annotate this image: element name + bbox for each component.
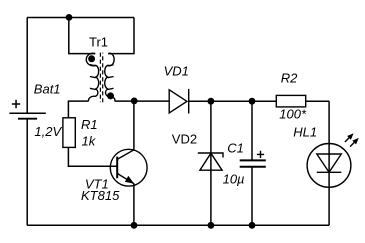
phase dot secondary [107,92,114,99]
zener diode VD2 [198,153,223,170]
emitter arrow of VT1 [125,176,134,184]
wire rail R2 to HL1 corner [306,100,329,102]
wire bottom rail [27,224,329,226]
wire R1 bottom to base [68,147,117,166]
wire collector vertical [133,101,135,150]
transistor VT1 [110,149,147,186]
svg-text:VD2: VD2 [172,131,197,146]
wire top rail [27,17,134,19]
svg-text:HL1: HL1 [293,124,317,139]
junction rail VD2 [208,98,215,105]
wire primary top branch [69,18,95,54]
svg-text:1,2V: 1,2V [34,124,62,139]
svg-text:R2: R2 [281,70,298,85]
transformer Tr1 secondary winding [105,53,115,101]
svg-text:R1: R1 [81,117,98,132]
svg-text:1k: 1k [82,134,97,149]
junction bottom C1 [249,222,256,229]
capacitor C1 [240,151,266,167]
wire emitter vertical [133,184,135,225]
svg-text:KT815: KT815 [81,188,120,203]
transformer core dashed lines [99,53,101,103]
wire main rail secondary to VD1 [115,100,170,102]
svg-text:100*: 100* [279,107,307,122]
wire HL1 vertical [328,101,330,225]
junction top rail [66,14,73,21]
wire VD2 vertical [210,101,212,225]
LED arrow 1 [345,133,354,142]
resistor R1 [63,118,75,148]
wire top-right drop to secondary top [108,18,134,54]
wire left vertical bottom (battery minus side) [26,119,28,225]
resistor R2 [276,95,305,107]
phase dot primary [88,55,95,62]
junction bottom VD2 [208,222,215,229]
wire primary bottom to R1 [68,101,88,118]
wire C1 bottom vertical [251,167,253,225]
svg-text:Tr1: Tr1 [89,34,108,49]
wire left vertical top (battery plus side) [26,18,28,114]
wire rail VD1 cathode to R2 [189,100,277,102]
svg-text:Bat1: Bat1 [34,82,61,97]
transformer Tr1 primary winding [86,53,98,101]
svg-text:VD1: VD1 [164,63,189,78]
svg-text:C1: C1 [227,140,244,155]
wire C1 top vertical [251,101,253,160]
junction rail C1 [249,98,256,105]
junction rail collector [131,98,138,105]
LED arrow 2 [350,138,359,147]
junction bottom emitter [131,222,138,229]
LED HL1 [307,144,351,188]
diode VD1 [169,89,189,114]
svg-text:10µ: 10µ [223,172,245,187]
battery Bat1 [9,100,45,119]
